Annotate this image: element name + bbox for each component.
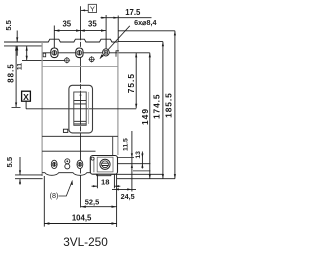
svg-text:13: 13 xyxy=(135,151,142,159)
svg-text:174.5: 174.5 xyxy=(151,94,161,119)
svg-text:75.5: 75.5 xyxy=(126,73,136,93)
svg-text:185.5: 185.5 xyxy=(163,92,173,117)
svg-text:17.5: 17.5 xyxy=(125,8,141,17)
svg-text:18: 18 xyxy=(101,177,109,186)
svg-text:11.5: 11.5 xyxy=(123,138,130,151)
svg-text:35: 35 xyxy=(62,19,71,28)
svg-text:(8): (8) xyxy=(50,191,59,200)
svg-text:88.5: 88.5 xyxy=(6,63,15,83)
svg-text:5.5: 5.5 xyxy=(4,19,13,30)
svg-text:24,5: 24,5 xyxy=(121,192,135,201)
svg-text:X: X xyxy=(23,92,29,102)
svg-text:149: 149 xyxy=(140,108,150,125)
svg-text:6x⌀8,4: 6x⌀8,4 xyxy=(134,18,156,27)
svg-text:Y: Y xyxy=(90,4,95,13)
svg-text:5.5: 5.5 xyxy=(5,156,14,167)
svg-text:52,5: 52,5 xyxy=(85,198,99,207)
svg-text:35: 35 xyxy=(88,20,97,29)
svg-text:11: 11 xyxy=(16,63,23,70)
svg-text:104,5: 104,5 xyxy=(72,214,92,223)
svg-text:3VL-250: 3VL-250 xyxy=(63,235,108,249)
